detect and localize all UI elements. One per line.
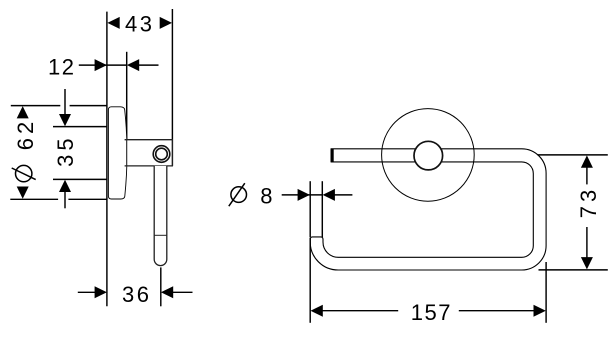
ring outer contour [310, 149, 546, 270]
dim 36 right arrow [161, 286, 173, 298]
dim 36 left arrow [95, 286, 107, 298]
dim 157 right extension line [545, 262, 547, 323]
diameter symbol for 8 [231, 187, 247, 203]
dim 8 left leader [282, 194, 323, 196]
dimension 43 right arrow [160, 17, 172, 29]
bar end cap (bold) [331, 149, 334, 163]
dim 35 bottom extension line [53, 178, 107, 180]
ring open end cap [310, 237, 323, 240]
svg-text:36: 36 [122, 282, 151, 307]
support arm [125, 140, 173, 166]
dim 73 bottom stem [586, 227, 588, 259]
svg-text:8: 8 [260, 183, 275, 208]
dim 73 top extension line [538, 154, 608, 156]
wall reference / extension line A [106, 12, 108, 307]
dim 157 right arrow [534, 305, 546, 317]
dim 8 right leader [334, 194, 352, 196]
dim 62 bottom extension line (two segments) [10, 198, 58, 200]
bar boss (donut) inner [156, 148, 168, 160]
dim 35 top extension line [53, 126, 107, 128]
hanger rod [154, 166, 167, 266]
dim 36 left leader [78, 291, 96, 293]
svg-text:62: 62 [13, 118, 38, 150]
dim 62 up arrow [17, 106, 29, 118]
svg-text:12: 12 [48, 54, 75, 79]
dim 62 down arrow [17, 187, 29, 199]
dim 157 right leader [459, 310, 536, 312]
dim 36 right leader [172, 291, 192, 293]
rosette (big circle) [382, 109, 475, 202]
dim 8 left arrow [298, 189, 310, 201]
extension line B12 (front of plate, for dim 12) [126, 52, 128, 166]
dimension 12 left leader [79, 64, 127, 66]
rod centre extension line [160, 267, 162, 306]
svg-text:73: 73 [576, 186, 601, 218]
dim 73 up arrow [581, 155, 593, 167]
bar boss (donut) outer [153, 146, 170, 163]
dimension 12 right arrow [127, 59, 139, 71]
dim 157 left leader [322, 310, 398, 312]
dim 35 top stem [64, 89, 66, 116]
dim 8 right arrow [323, 189, 335, 201]
dim 35 bottom arrow [59, 180, 71, 192]
dimension 12 left arrow [95, 59, 107, 71]
hub (small circle) [414, 141, 443, 170]
svg-text:157: 157 [411, 300, 452, 325]
dimension 12 right leader [138, 64, 159, 66]
svg-text:43: 43 [125, 11, 154, 36]
dim 73 bottom extension line [539, 269, 608, 271]
dim 35 top arrow [59, 114, 71, 126]
svg-text:35: 35 [53, 134, 78, 166]
dim 157 left extension line [309, 238, 311, 323]
dim 73 top stem [586, 167, 588, 185]
dim 73 down arrow [581, 257, 593, 269]
dim 62 top extension line (two segments, gap at 35-leader) [11, 105, 61, 107]
dim 35 bottom stem [64, 191, 66, 208]
line B12 overlay across arm [126, 140, 128, 166]
dimension 43 left arrow [107, 17, 119, 29]
dim 8 extension lines [309, 181, 311, 237]
rod joint tick [154, 234, 167, 236]
ring inner contour [323, 162, 533, 257]
diameter symbol for 62 [16, 165, 32, 181]
extension line B43 (front of arm, for dim 43) [171, 9, 173, 166]
wall plate (side view, convex face) [108, 107, 127, 199]
dim 157 left arrow [311, 305, 323, 317]
